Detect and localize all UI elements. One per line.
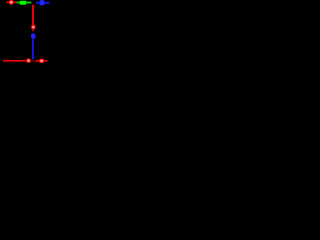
wire: bottom-right red horizontal left segment <box>36 60 40 62</box>
wire: center blue vertical shaft <box>32 38 34 59</box>
wire: center red vertical shaft <box>32 5 34 26</box>
wire: green horizontal right segment <box>26 2 31 4</box>
wire: bottom-left red horizontal shaft <box>3 60 27 62</box>
arrowhead: blue up-pointing head <box>31 34 35 38</box>
arrowhead: green head block <box>20 1 26 5</box>
arrowhead tip: blue up tip <box>32 33 34 35</box>
wire: top-left red horizontal shaft <box>6 1 16 3</box>
background <box>0 0 66 66</box>
arrowhead: red down-pointing head <box>31 25 35 30</box>
arrowhead: blue head block <box>40 0 45 5</box>
wire: top-right blue horizontal left segment <box>36 2 40 4</box>
wire: dim red bridge under blue junction <box>31 60 36 62</box>
wire: top-right blue horizontal right segment <box>44 2 49 4</box>
arrowhead tip: red down tip <box>32 29 34 31</box>
arrowhead: top-left red head <box>9 0 14 5</box>
arrowhead: bottom-left red head <box>26 58 30 63</box>
arrowhead: bottom-right red head <box>39 59 44 64</box>
wire: green horizontal left segment <box>17 2 21 4</box>
wire: bottom-right red horizontal right segment <box>44 60 48 62</box>
